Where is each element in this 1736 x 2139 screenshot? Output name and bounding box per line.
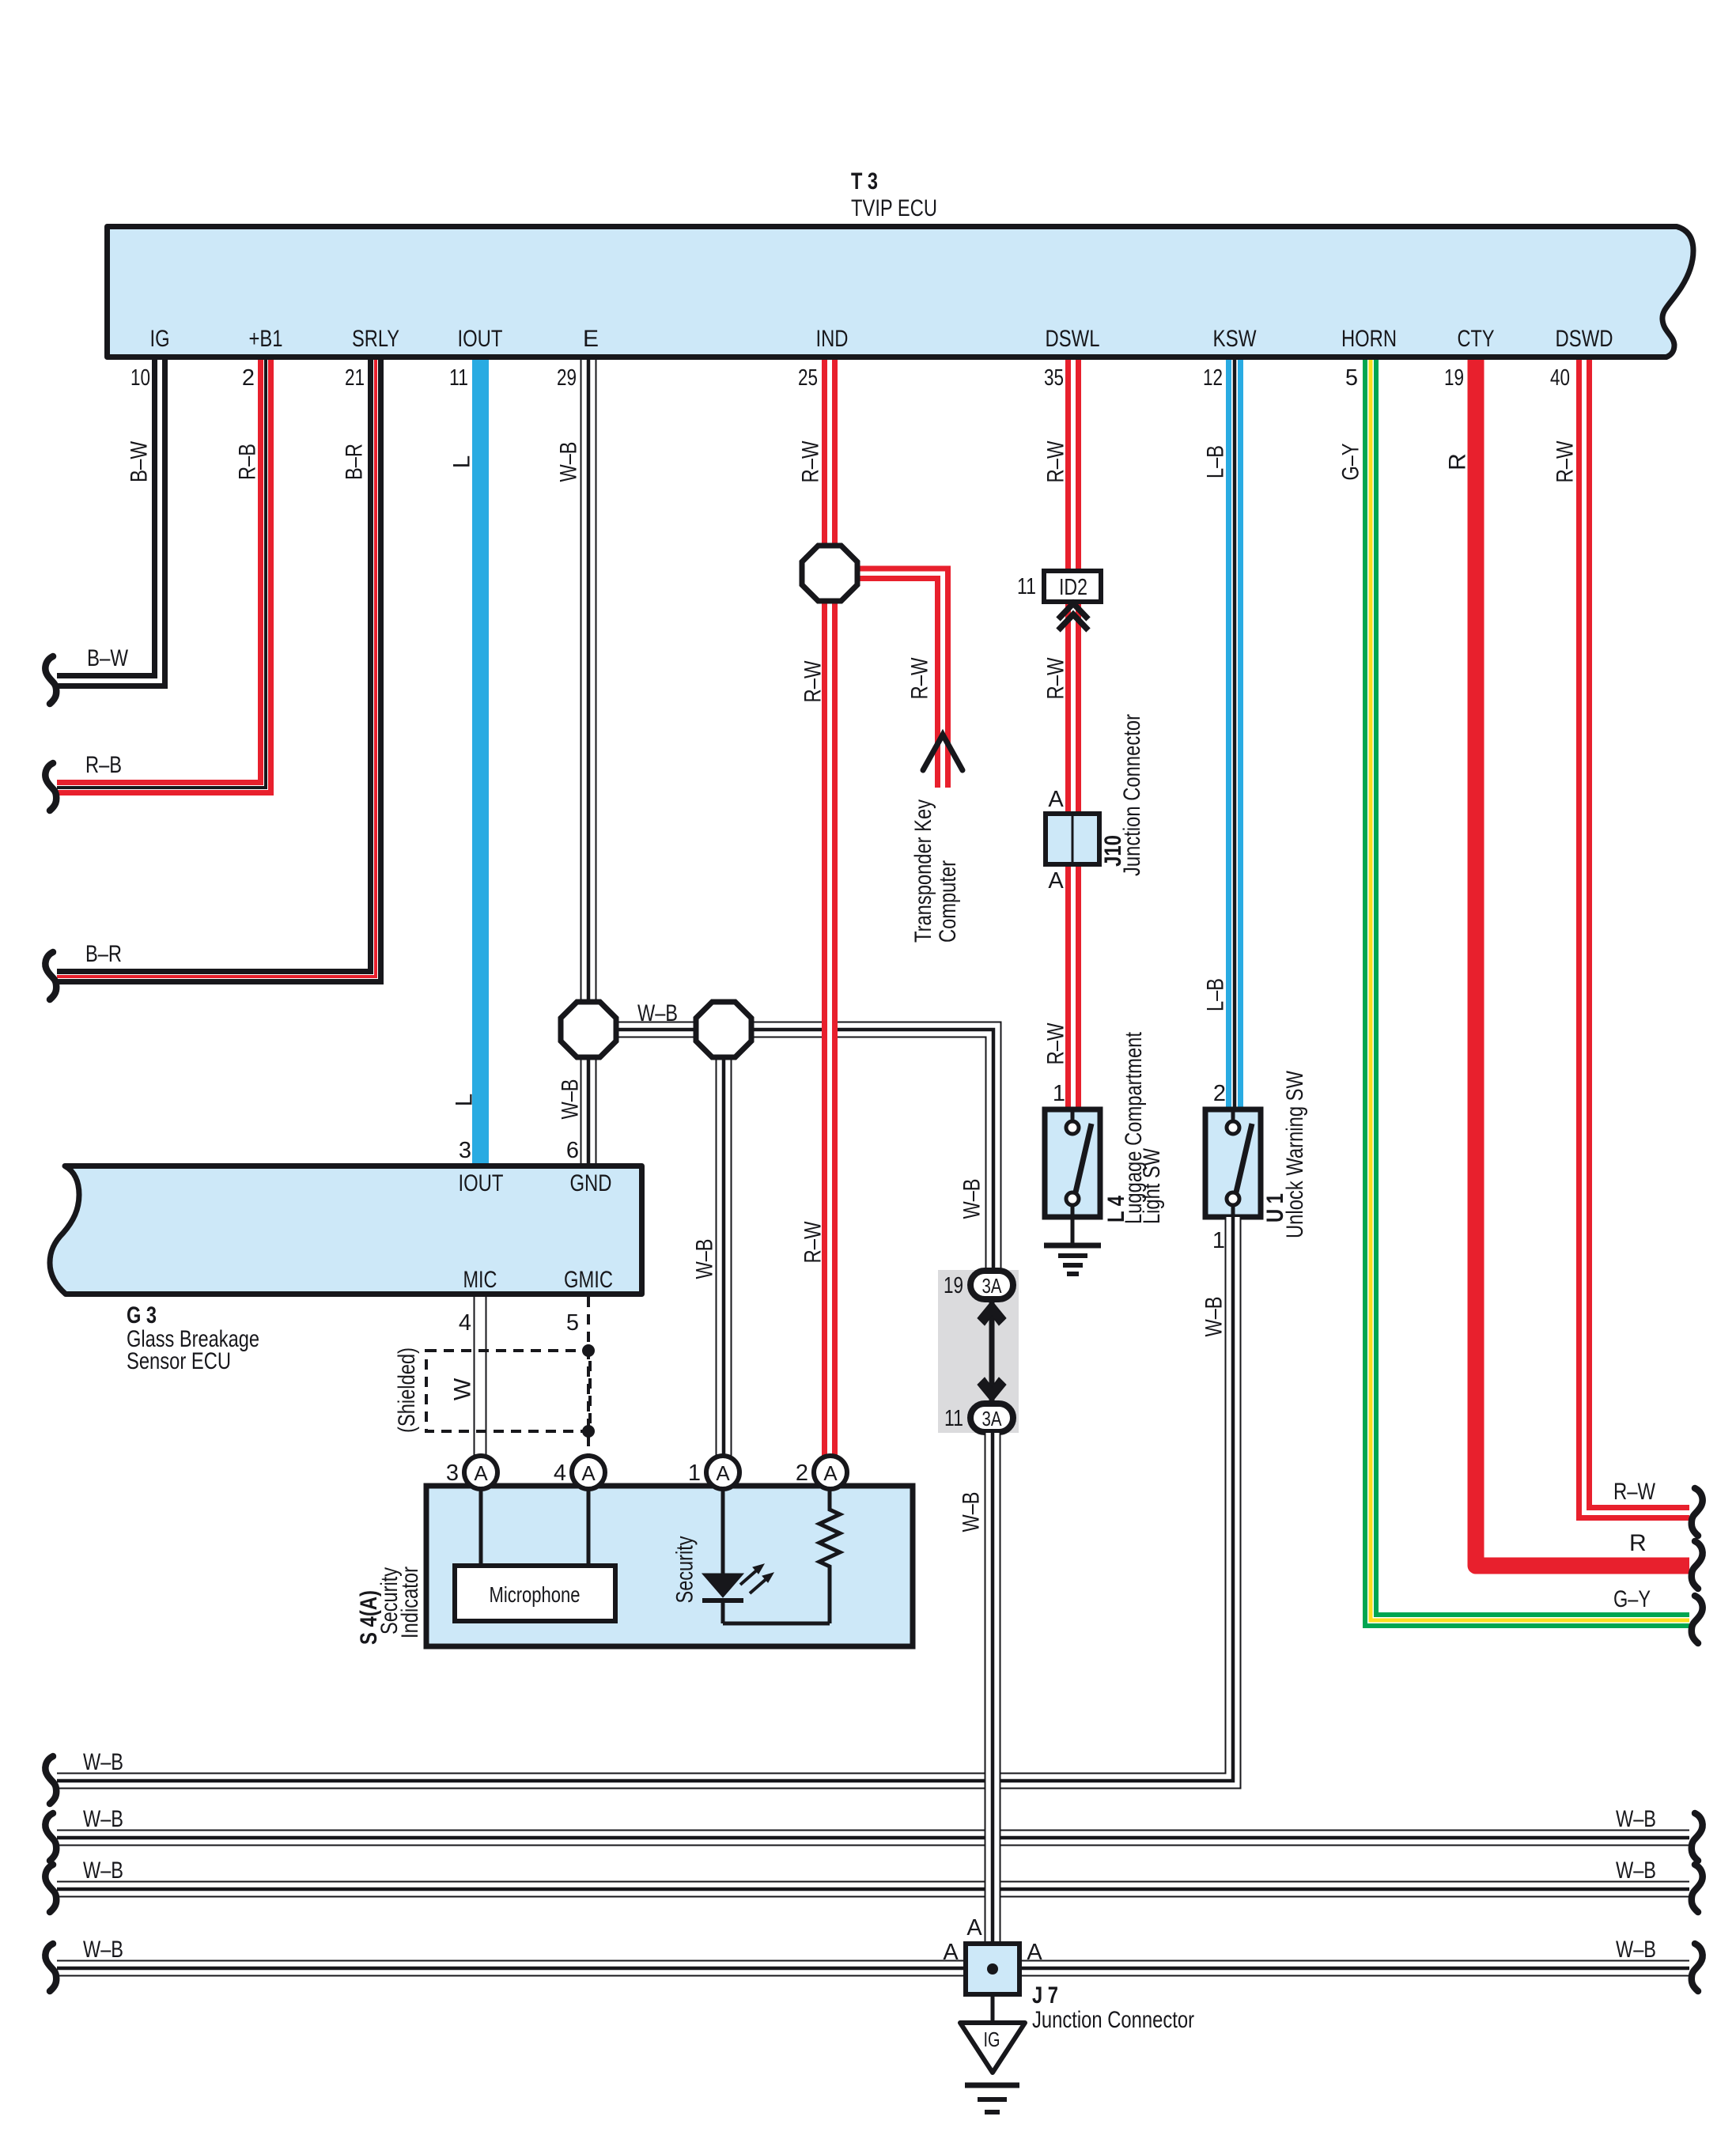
resistor in S4A bbox=[819, 1489, 840, 1623]
svg-text:G–Y: G–Y bbox=[1338, 444, 1364, 481]
junction connector J7 bbox=[966, 1944, 1019, 1994]
luggage compartment light switch L4 bbox=[1045, 1109, 1100, 1217]
svg-text:W–B: W–B bbox=[83, 1937, 123, 1963]
svg-text:19: 19 bbox=[944, 1273, 963, 1298]
wire IOUT L blue bbox=[472, 360, 489, 1163]
wire W-B 3A to J7 bbox=[985, 1433, 1000, 1944]
svg-text:W–B: W–B bbox=[1616, 1857, 1656, 1884]
wire DSWD R-W bbox=[1579, 360, 1690, 1518]
svg-text:W–B: W–B bbox=[83, 1857, 123, 1884]
svg-text:L: L bbox=[452, 1094, 478, 1107]
wire J7 to ground bbox=[991, 1994, 995, 2023]
break rail3 left bbox=[45, 1865, 56, 1912]
svg-text:W–B: W–B bbox=[1616, 1806, 1656, 1832]
svg-text:R–W: R–W bbox=[1553, 440, 1579, 483]
wire W-B rail3 bbox=[57, 1882, 1689, 1897]
svg-text:3: 3 bbox=[459, 1138, 471, 1163]
svg-text:1: 1 bbox=[1053, 1081, 1065, 1106]
svg-text:11: 11 bbox=[1017, 574, 1036, 599]
svg-text:19: 19 bbox=[1444, 365, 1464, 391]
svg-text:W–B: W–B bbox=[1201, 1297, 1227, 1337]
unlock warning switch U1 bbox=[1205, 1109, 1261, 1217]
svg-text:B–R: B–R bbox=[85, 941, 122, 967]
svg-text:A: A bbox=[1048, 868, 1064, 894]
svg-text:10: 10 bbox=[130, 365, 150, 391]
octagon junction IND bbox=[802, 546, 857, 601]
svg-text:MIC: MIC bbox=[463, 1267, 497, 1293]
break HORN right bbox=[1692, 1596, 1703, 1643]
svg-text:W–B: W–B bbox=[558, 1079, 584, 1120]
break IG left bbox=[45, 656, 56, 704]
svg-text:R: R bbox=[1629, 1530, 1647, 1556]
wire W-B octagon to 3A bbox=[588, 1022, 1001, 1272]
svg-text:A: A bbox=[1027, 1940, 1042, 1965]
break +B1 left bbox=[45, 763, 56, 811]
svg-text:W–B: W–B bbox=[556, 442, 582, 482]
break rail1 left bbox=[45, 1756, 56, 1804]
svg-text:R–W: R–W bbox=[800, 660, 826, 703]
svg-text:25: 25 bbox=[798, 365, 818, 391]
svg-text:2: 2 bbox=[796, 1461, 808, 1486]
svg-text:DSWD: DSWD bbox=[1556, 326, 1613, 352]
svg-text:3A: 3A bbox=[982, 1407, 1003, 1430]
svg-text:B–R: B–R bbox=[342, 444, 368, 480]
svg-text:IG: IG bbox=[984, 2028, 1000, 2051]
break rail3 right bbox=[1692, 1865, 1703, 1912]
svg-text:W–B: W–B bbox=[692, 1239, 718, 1279]
svg-text:R–W: R–W bbox=[1043, 657, 1069, 700]
ground IG triangle bbox=[960, 2023, 1025, 2073]
svg-text:CTY: CTY bbox=[1458, 326, 1495, 352]
svg-text:L–B: L–B bbox=[1203, 978, 1229, 1011]
svg-text:5: 5 bbox=[566, 1310, 579, 1336]
arrow to transponder key computer bbox=[923, 735, 963, 770]
wire GMIC dashed bbox=[587, 1297, 590, 1456]
svg-text:R–W: R–W bbox=[798, 440, 824, 483]
security indicator S4A box bbox=[426, 1486, 913, 1646]
svg-text:IND: IND bbox=[816, 326, 849, 352]
svg-text:A: A bbox=[474, 1461, 488, 1485]
wire IND R-W vertical bbox=[825, 360, 835, 1456]
svg-text:R–W: R–W bbox=[1043, 1022, 1069, 1065]
svg-text:12: 12 bbox=[1203, 365, 1223, 391]
svg-text:A: A bbox=[581, 1461, 596, 1485]
svg-text:6: 6 bbox=[566, 1138, 579, 1163]
label J10 Junction Connector bbox=[1100, 714, 1145, 876]
label Transponder Key Computer bbox=[910, 799, 961, 943]
svg-text:W–B: W–B bbox=[959, 1179, 985, 1219]
ECU T3 box bbox=[108, 227, 1694, 357]
svg-text:T 3: T 3 bbox=[851, 168, 878, 195]
wire SRLY B-R bbox=[57, 360, 381, 982]
svg-text:R–W: R–W bbox=[1043, 440, 1069, 483]
security LED bbox=[702, 1489, 830, 1623]
svg-text:(Shielded): (Shielded) bbox=[394, 1347, 420, 1433]
label U1 Unlock Warning SW bbox=[1262, 1070, 1308, 1238]
svg-text:1: 1 bbox=[688, 1461, 701, 1486]
svg-text:GND: GND bbox=[570, 1170, 612, 1196]
label L4 Luggage Compartment Light SW bbox=[1103, 1031, 1165, 1224]
glass breakage sensor ECU G3 box bbox=[50, 1166, 642, 1294]
svg-text:11: 11 bbox=[449, 365, 468, 391]
wire IG B-W bbox=[57, 360, 165, 686]
break rail2 right bbox=[1692, 1813, 1703, 1861]
svg-text:+B1: +B1 bbox=[249, 326, 283, 352]
break rail4 left bbox=[45, 1944, 56, 1991]
svg-text:TVIP ECU: TVIP ECU bbox=[851, 195, 937, 221]
svg-text:A: A bbox=[943, 1940, 959, 1965]
wire CTY R bbox=[1476, 360, 1689, 1566]
connector 3A bottom bbox=[970, 1404, 1013, 1432]
svg-text:L–B: L–B bbox=[1203, 445, 1229, 478]
svg-text:IOUT: IOUT bbox=[459, 1170, 504, 1196]
svg-text:W: W bbox=[450, 1378, 476, 1400]
label T3 bbox=[851, 168, 937, 221]
wire KSW L-B bbox=[1229, 360, 1241, 1109]
octagon junction 2 bbox=[696, 1002, 751, 1057]
break rail2 left bbox=[45, 1813, 56, 1861]
svg-text:Junction Connector: Junction Connector bbox=[1119, 714, 1145, 876]
svg-text:IOUT: IOUT bbox=[458, 326, 503, 352]
svg-text:L: L bbox=[449, 455, 475, 469]
svg-text:A: A bbox=[823, 1461, 838, 1485]
svg-text:GMIC: GMIC bbox=[564, 1267, 613, 1293]
svg-text:E: E bbox=[583, 326, 599, 352]
svg-text:Computer: Computer bbox=[935, 860, 961, 943]
svg-text:3A: 3A bbox=[982, 1274, 1003, 1298]
svg-text:2: 2 bbox=[242, 365, 255, 391]
svg-text:4: 4 bbox=[459, 1310, 471, 1336]
svg-text:Sensor ECU: Sensor ECU bbox=[127, 1348, 231, 1374]
svg-text:21: 21 bbox=[345, 365, 365, 391]
wire MIC W bbox=[475, 1297, 486, 1456]
svg-text:R–B: R–B bbox=[235, 444, 261, 480]
svg-text:Transponder Key: Transponder Key bbox=[910, 799, 936, 943]
connector ID2 bbox=[1044, 571, 1101, 602]
wire W-B rail2 bbox=[57, 1831, 1689, 1846]
wire W-B rail4 bbox=[57, 1961, 1689, 1976]
break SRLY left bbox=[45, 952, 56, 1000]
connector A pin3 bbox=[464, 1456, 497, 1489]
svg-text:2: 2 bbox=[1213, 1081, 1226, 1106]
svg-text:A: A bbox=[966, 1915, 982, 1941]
wire W-B octagon2 down bbox=[717, 1030, 732, 1456]
svg-text:A: A bbox=[716, 1461, 730, 1485]
connector A pin4 bbox=[572, 1456, 605, 1489]
svg-text:1: 1 bbox=[1212, 1228, 1225, 1253]
break DSWD right bbox=[1692, 1488, 1703, 1536]
svg-text:J 7: J 7 bbox=[1032, 1982, 1058, 2009]
svg-text:R–W: R–W bbox=[800, 1221, 826, 1264]
label J7 Junction Connector bbox=[1032, 1982, 1194, 2033]
wire DSWL R-W bbox=[1068, 360, 1079, 1109]
svg-text:W–B: W–B bbox=[637, 1000, 678, 1026]
svg-text:Light SW: Light SW bbox=[1139, 1147, 1165, 1224]
junction connector J10 bbox=[1046, 814, 1099, 864]
wire +B1 R-B bbox=[57, 360, 271, 793]
svg-text:R–W: R–W bbox=[907, 657, 933, 700]
label G3 Glass Breakage Sensor ECU bbox=[127, 1302, 259, 1374]
microphone box bbox=[455, 1566, 615, 1621]
svg-text:4: 4 bbox=[554, 1461, 566, 1486]
svg-text:G–Y: G–Y bbox=[1613, 1586, 1651, 1612]
svg-text:DSWL: DSWL bbox=[1046, 326, 1100, 352]
shielded box dashed bbox=[426, 1351, 590, 1431]
wire HORN G-Y bbox=[1365, 360, 1689, 1626]
svg-text:ID2: ID2 bbox=[1059, 575, 1087, 600]
svg-text:G 3: G 3 bbox=[127, 1302, 157, 1328]
svg-text:R–W: R–W bbox=[1613, 1479, 1656, 1505]
svg-text:W–B: W–B bbox=[83, 1749, 123, 1775]
svg-text:Unlock Warning SW: Unlock Warning SW bbox=[1282, 1070, 1308, 1238]
svg-text:11: 11 bbox=[944, 1406, 963, 1431]
ground bars J7 bbox=[965, 2085, 1019, 2112]
svg-text:HORN: HORN bbox=[1341, 326, 1397, 352]
connector A pin1 bbox=[706, 1456, 739, 1489]
svg-text:A: A bbox=[1048, 787, 1064, 812]
break CTY right bbox=[1692, 1541, 1703, 1589]
svg-text:W–B: W–B bbox=[1616, 1937, 1656, 1963]
svg-text:KSW: KSW bbox=[1213, 326, 1258, 352]
svg-text:W–B: W–B bbox=[959, 1492, 985, 1532]
svg-text:IG: IG bbox=[150, 326, 170, 352]
wire U1 W-B down and rail 1 bbox=[57, 1217, 1241, 1789]
ground L4 bbox=[1044, 1217, 1101, 1274]
svg-text:B–W: B–W bbox=[127, 440, 153, 482]
shield dot bottom bbox=[582, 1425, 595, 1438]
svg-text:5: 5 bbox=[1345, 365, 1358, 391]
svg-text:R: R bbox=[1445, 453, 1471, 471]
svg-text:40: 40 bbox=[1550, 365, 1570, 391]
shield dot top bbox=[582, 1344, 595, 1357]
svg-text:3: 3 bbox=[446, 1461, 459, 1486]
microphone leads bbox=[481, 1489, 588, 1566]
svg-text:SRLY: SRLY bbox=[352, 326, 399, 352]
svg-text:35: 35 bbox=[1044, 365, 1064, 391]
connector 3A top bbox=[970, 1271, 1013, 1299]
label S4A Security Indicator bbox=[356, 1566, 423, 1645]
svg-text:Microphone: Microphone bbox=[490, 1582, 581, 1607]
wire transponder branch R-W bbox=[838, 569, 948, 788]
connector A pin2 bbox=[814, 1456, 847, 1489]
break rail4 right bbox=[1692, 1944, 1703, 1991]
svg-text:R–B: R–B bbox=[85, 752, 122, 778]
svg-text:Indicator: Indicator bbox=[397, 1566, 423, 1638]
wire E W-B bbox=[581, 360, 596, 1163]
wire between 3A connectors with arrows bbox=[978, 1299, 1006, 1404]
chevron arrows below ID2 bbox=[1058, 603, 1088, 630]
svg-text:Junction Connector: Junction Connector bbox=[1032, 2007, 1194, 2033]
svg-text:W–B: W–B bbox=[83, 1806, 123, 1832]
svg-text:Security: Security bbox=[672, 1536, 698, 1604]
svg-text:B–W: B–W bbox=[87, 645, 129, 671]
gray connector block 3A bbox=[938, 1270, 1019, 1433]
svg-text:29: 29 bbox=[557, 365, 577, 391]
octagon junction E wire bbox=[561, 1002, 616, 1057]
